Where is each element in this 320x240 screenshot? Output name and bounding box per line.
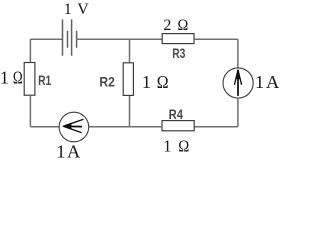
label 1 A right: [255, 72, 280, 92]
wire left upper: [29, 39, 31, 62]
wire bottom-middle segment: [89, 126, 162, 128]
current source I1 circle: [59, 112, 89, 142]
svg-text:R2: R2: [99, 74, 115, 90]
svg-text:R1: R1: [38, 72, 51, 88]
svg-text:1: 1: [56, 142, 65, 161]
svg-text:1: 1: [64, 1, 72, 18]
wire middle vertical upper: [129, 39, 131, 63]
resistor R4: [162, 121, 194, 131]
current source I1 arrow left: [63, 119, 84, 132]
svg-text:A: A: [67, 142, 81, 161]
wire bottom-right segment: [194, 126, 238, 128]
label 1 A bottom: [56, 142, 81, 162]
svg-text:1: 1: [0, 68, 9, 88]
current source I2 arrow up: [234, 69, 241, 96]
svg-text:2: 2: [163, 17, 171, 34]
current source I2 circle: [223, 68, 253, 98]
label 1 V: [64, 1, 89, 18]
wire right upper: [237, 39, 239, 68]
svg-text:A: A: [266, 72, 280, 92]
battery B1 (1 V): [63, 19, 77, 55]
wire top-right segment: [194, 38, 238, 40]
svg-text:Ω: Ω: [13, 68, 23, 88]
wire middle vertical lower: [129, 95, 131, 126]
label 2 ohm: [163, 17, 188, 34]
label 1 ohm right of R2: [142, 72, 169, 92]
wire right lower: [237, 98, 239, 127]
wire top-middle segment: [77, 38, 163, 40]
resistor R3: [162, 34, 194, 44]
svg-text:Ω: Ω: [178, 136, 189, 155]
svg-text:R3: R3: [172, 45, 185, 61]
wire left lower: [29, 95, 31, 127]
svg-text:1: 1: [255, 72, 264, 92]
svg-text:1: 1: [163, 136, 171, 155]
svg-text:Ω: Ω: [178, 17, 189, 34]
resistor R1: [24, 63, 35, 96]
wire top-left segment: [30, 38, 62, 40]
svg-text:V: V: [77, 1, 89, 18]
resistor R2: [123, 63, 133, 96]
svg-text:R4: R4: [169, 106, 184, 122]
label 1 ohm below R4: [163, 136, 189, 155]
label 1 ohm left of R1: [0, 68, 23, 88]
svg-text:1: 1: [142, 72, 151, 92]
svg-text:Ω: Ω: [157, 72, 169, 92]
wire bottom-left segment: [30, 126, 59, 128]
